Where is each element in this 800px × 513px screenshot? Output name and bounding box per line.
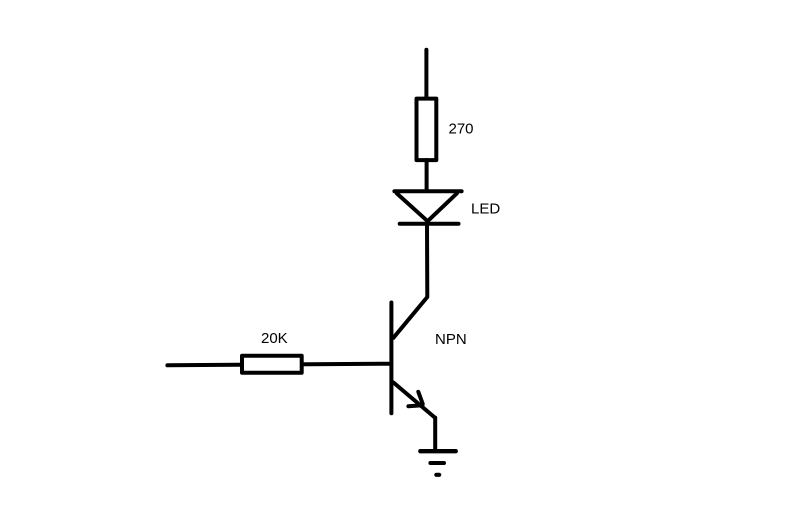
ground bar 2 — [430, 461, 444, 465]
LED D1 cathode bar — [400, 222, 459, 226]
LED D1 anode bar — [394, 189, 461, 193]
wire: emitter to ground — [433, 418, 437, 450]
ground dot — [436, 473, 439, 477]
wire: resistor 270 to LED anode — [425, 160, 429, 191]
transistor Q1 emitter stroke — [394, 383, 435, 418]
svg-text:LED: LED — [471, 201, 500, 218]
svg-text:NPN: NPN — [435, 331, 467, 348]
resistor R1 body (270) — [417, 99, 437, 161]
LED D1 triangle — [397, 193, 457, 221]
resistor R2 body (20K) — [242, 356, 302, 373]
svg-text:20K: 20K — [261, 330, 288, 347]
transistor Q1 base bar — [389, 303, 393, 414]
wire: LED cathode to transistor collector — [393, 224, 427, 338]
svg-text:270: 270 — [449, 120, 474, 137]
ground bar 1 — [420, 449, 456, 453]
transistor Q1 emitter arrowhead — [418, 392, 422, 404]
wire: base lead left — [167, 364, 390, 366]
wire: supply lead to resistor 270 — [424, 50, 428, 98]
